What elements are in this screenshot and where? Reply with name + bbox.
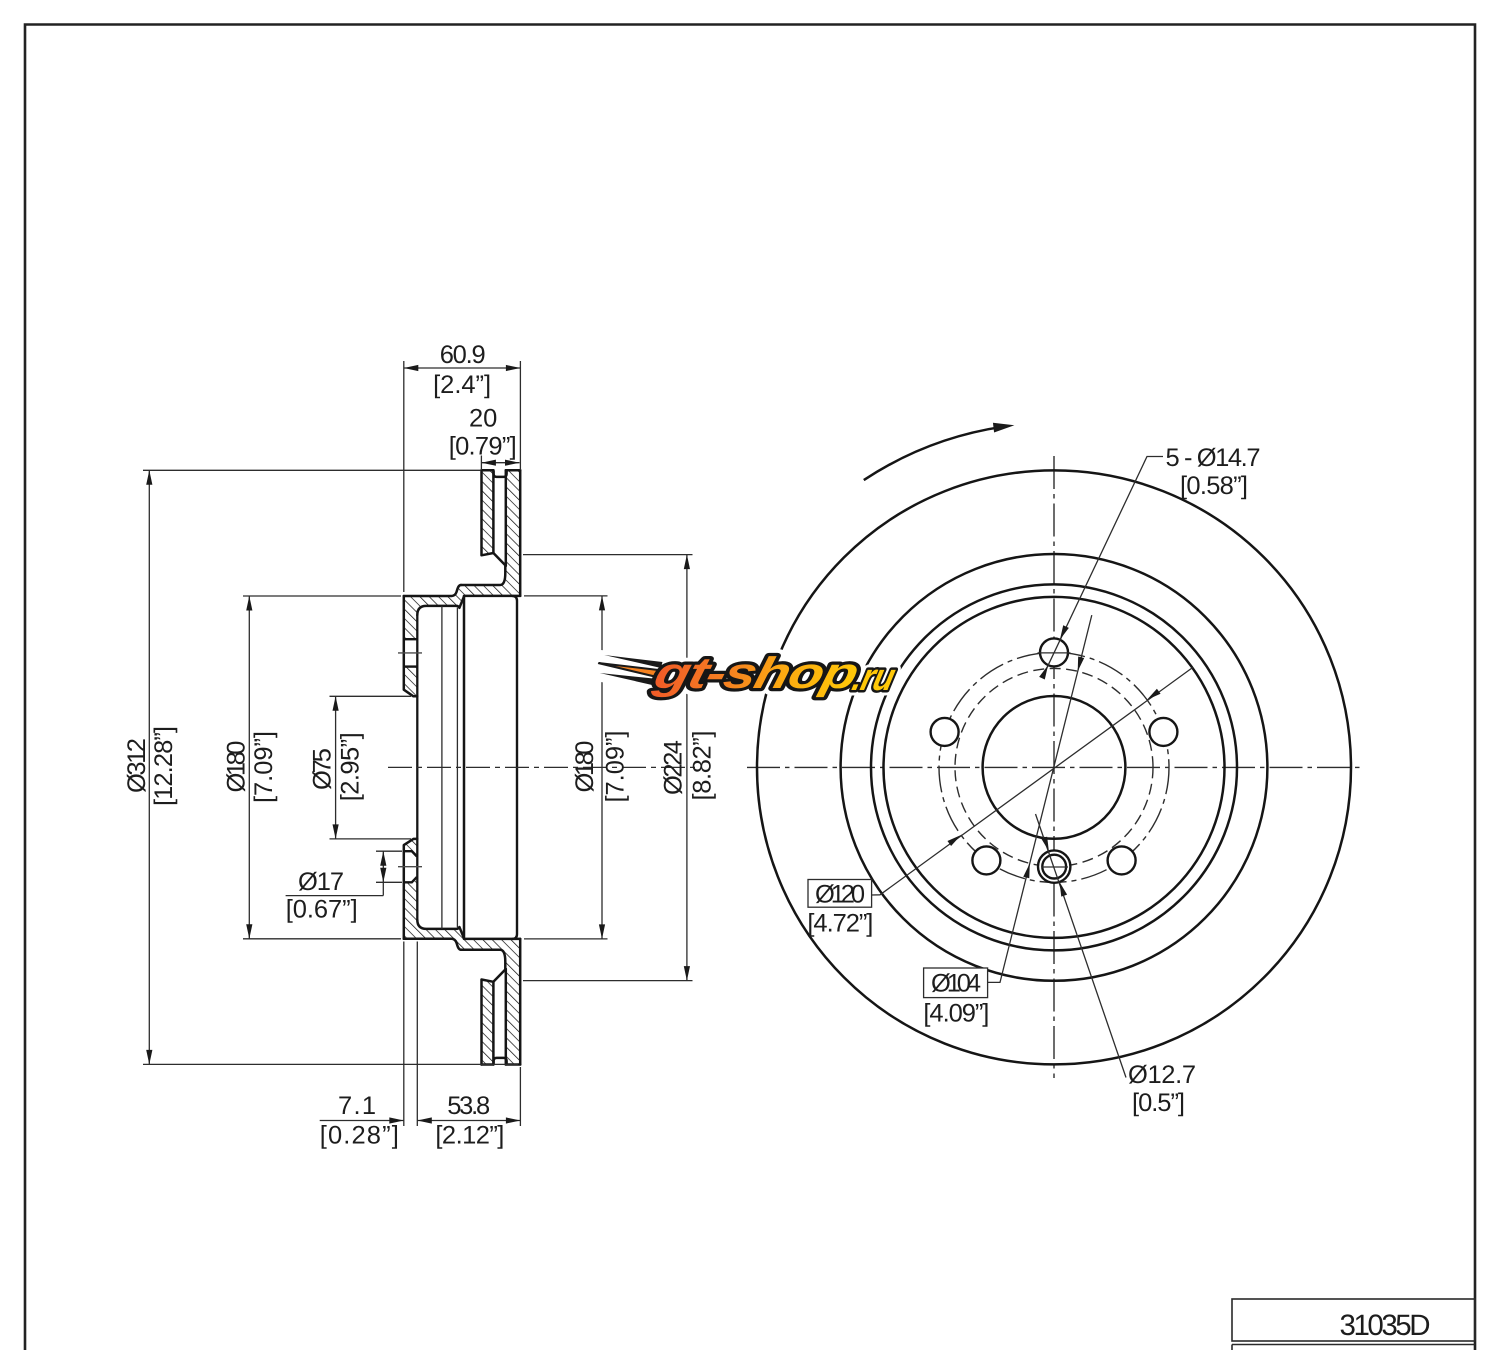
svg-text:[7.09”]: [7.09”] — [601, 731, 629, 803]
vent slot floor bottom — [493, 969, 505, 982]
svg-text:[8.82”]: [8.82”] — [688, 731, 716, 801]
inboard friction plate (top half) hatch — [482, 470, 494, 555]
svg-text:Ø120: Ø120 — [815, 881, 865, 909]
flange top edge and jog — [404, 585, 461, 596]
svg-text:[12.28”]: [12.28”] — [150, 726, 178, 806]
svg-text:[0.58”]: [0.58”] — [1180, 472, 1248, 500]
svg-text:20: 20 — [469, 405, 497, 433]
svg-text:Ø104: Ø104 — [931, 970, 981, 998]
mounting face top part — [404, 596, 418, 696]
step underside top — [464, 595, 520, 598]
outer circle Ø312 — [757, 470, 1351, 1064]
Ø104 locating circle leader — [988, 615, 1092, 982]
hub bore / flange inner face edge — [416, 615, 418, 920]
bolt hole 306° — [1108, 846, 1136, 874]
svg-text:Ø180: Ø180 — [571, 741, 599, 793]
hat interior tangent edge lines — [442, 606, 458, 929]
svg-text:Ø312: Ø312 — [123, 738, 151, 793]
svg-text:7.1: 7.1 — [338, 1092, 376, 1120]
svg-text:[7.09”]: [7.09”] — [250, 731, 278, 803]
svg-text:[0.5”]: [0.5”] — [1132, 1089, 1185, 1117]
svg-text:[0.28”]: [0.28”] — [320, 1122, 399, 1150]
locating hole Ø12.7 inner circle — [1042, 855, 1066, 879]
bolt hole top centerline tick — [1038, 652, 1071, 654]
vent slot floor top — [493, 553, 505, 566]
OD groove bridge top — [494, 472, 507, 477]
flange underside fillet bottom — [417, 920, 464, 939]
speed lines halo — [593, 655, 664, 685]
svg-text:Ø75: Ø75 — [309, 748, 337, 790]
speed lines — [601, 655, 664, 668]
bolt hole walls (section top) — [404, 639, 418, 666]
locating hole walls (section bottom) — [404, 851, 418, 882]
bolt circle Ø120 (dash-dot) — [939, 652, 1169, 882]
step outer edge circle — [871, 584, 1237, 950]
svg-text:53.8: 53.8 — [447, 1092, 490, 1120]
section outline (thick visible edges), top half — [404, 470, 520, 696]
20 friction band dimension — [481, 456, 519, 471]
outboard face bottom — [519, 939, 522, 1065]
main body: outboard plate + step + flange (bottom half) hatch — [404, 839, 520, 1065]
Ø224 dimension — [523, 555, 693, 981]
7.1 flange thickness dimension — [320, 942, 521, 1127]
gt-shop.ru watermark logo — [589, 649, 901, 699]
outboard face top — [519, 470, 522, 596]
friction ring inner circle Ø224 — [841, 554, 1268, 981]
svg-text:[4.09”]: [4.09”] — [923, 1000, 989, 1028]
bowl bottom plane edge — [512, 596, 517, 939]
Ø75 dimension — [330, 696, 412, 839]
vent slot right wall top — [505, 470, 508, 566]
outer diameter edge bottom — [482, 1063, 521, 1066]
svg-text:60.9: 60.9 — [440, 341, 486, 369]
bolt hole 162° — [931, 718, 959, 746]
svg-text:[2.95”]: [2.95”] — [337, 732, 365, 801]
locating hole centerline tick — [1042, 866, 1069, 868]
hat flange edge circle Ø180 — [884, 597, 1225, 938]
svg-text:31035D: 31035D — [1340, 1309, 1431, 1342]
section axis centerline — [388, 766, 698, 768]
inboard plate top — [482, 470, 494, 555]
svg-text:Ø180: Ø180 — [222, 741, 250, 793]
bolt hole in flange (section, top) white cut — [403, 639, 419, 666]
step bottom edge and fillet — [461, 950, 505, 969]
Ø180 left dimension — [243, 596, 401, 939]
rotation direction arc arrow — [864, 427, 1003, 480]
bolt hole top (90°) — [1040, 638, 1068, 666]
bolt hole 18° — [1149, 718, 1177, 746]
inboard friction plate (bottom half) hatch — [482, 980, 494, 1065]
svg-text:[4.72”]: [4.72”] — [807, 910, 873, 938]
hat outer wall edge (annular face) — [463, 596, 466, 939]
hub bore circle Ø75 — [983, 696, 1126, 839]
Ø180 right dimension — [524, 596, 608, 939]
front view center lines — [1053, 456, 1055, 1078]
svg-text:Ø17: Ø17 — [298, 868, 344, 896]
svg-text:[2.12”]: [2.12”] — [435, 1122, 504, 1150]
OD groove bridge bottom — [494, 1058, 507, 1063]
svg-text:[0.79”]: [0.79”] — [449, 433, 517, 461]
step top edge and fillet — [461, 566, 505, 585]
vent slot right wall bottom — [505, 969, 508, 1065]
mounting face bottom part — [404, 839, 418, 939]
svg-text:Ø12.7: Ø12.7 — [1128, 1061, 1196, 1089]
locating hole centerline tick (section) — [398, 866, 422, 868]
svg-text:[0.67”]: [0.67”] — [286, 896, 358, 924]
main body: outboard plate + step + flange (top half) hatch — [404, 470, 520, 696]
Ø312 dimension — [143, 470, 518, 1064]
locating hole Ø17 outer circle — [1038, 850, 1070, 882]
svg-text:5 - Ø14.7: 5 - Ø14.7 — [1166, 444, 1261, 472]
locating hole circle Ø104 (dashed) — [955, 668, 1153, 866]
flange underside fillet top — [417, 597, 464, 616]
flange bottom edge and jog — [404, 939, 461, 950]
Ø12.7 locating hole leader — [1036, 814, 1127, 1078]
svg-text:Ø224: Ø224 — [660, 740, 688, 795]
bolt hole 234° — [972, 846, 1000, 874]
Ø120 bolt circle leader — [872, 668, 1193, 896]
locating hole Ø17/Ø12.7 in flange (section, bottom) white cut — [403, 851, 419, 882]
Ø17 dimension — [286, 851, 402, 895]
5-Ø14.7 bolt hole leader — [1044, 457, 1163, 675]
title block — [1232, 1299, 1475, 1350]
bolt hole centerline tick (section) — [398, 652, 422, 654]
svg-text:[2.4”]: [2.4”] — [433, 371, 491, 399]
step underside bottom — [464, 938, 520, 941]
svg-text:gt-shop: gt-shop — [648, 649, 863, 698]
section outline (thick visible edges), bottom half — [404, 839, 520, 1065]
inboard plate bottom — [482, 980, 494, 1065]
outer diameter edge top — [482, 469, 521, 472]
60.9 width dimension — [404, 361, 521, 592]
